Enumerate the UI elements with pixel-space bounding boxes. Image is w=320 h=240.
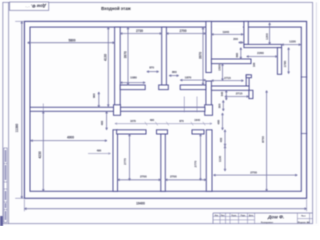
wall B (room2/room3 divider) [162,27,167,85]
dim 165 [252,62,256,67]
wall G (bath horizontal) [244,44,282,47]
wall H (hall/wc top wall) [211,59,251,64]
svg-text:11380: 11380 [15,123,19,132]
svg-text:Подп.: Подп. [241,215,246,217]
dim 1870 room3 [180,76,206,81]
dim 340 [220,90,227,100]
entrance opening in top wall [212,26,243,28]
svg-text:490: 490 [150,118,155,122]
svg-text:1220: 1220 [289,40,296,44]
svg-text:19400: 19400 [136,202,145,206]
svg-text:1670: 1670 [130,119,136,123]
wall D lower [206,130,212,192]
dim 2715 hall [211,76,243,82]
door jamb lines corridor [184,97,197,113]
wall I vertical [246,75,249,86]
svg-text:2730: 2730 [136,29,143,33]
wall C (lower rooms divider) [161,134,166,191]
dim chain lower rooms [115,118,212,125]
lower rooms top wall P1 [117,130,146,134]
corridor lower wall seg2 [121,107,205,111]
svg-text:870: 870 [149,66,154,70]
svg-text:960: 960 [92,93,96,98]
dim 2730 room2 [120,29,162,34]
svg-text:490: 490 [217,119,221,124]
dim 960 [92,92,100,107]
wall C head [157,130,168,134]
window mark right wall 2 [301,133,307,135]
wall A upper (between room1 and room2) [115,27,121,107]
corridor upper wall seg4 [211,86,249,90]
dim 870 door room2 [147,66,159,73]
svg-text:2715: 2715 [236,92,243,96]
stamp text (rotated designation) [26,3,47,8]
svg-text:Дом Ф.: Дом Ф. [31,3,47,8]
wall D middle [206,81,212,111]
dim 1500 [217,64,223,81]
overall width dim 19400 [24,200,306,212]
svg-text:2715: 2715 [224,76,231,80]
svg-text:Формат А4: Формат А4 [298,221,311,224]
title block name [267,214,284,220]
top-left stamp box [10,2,49,10]
dim 4900 lower-left room [31,135,107,141]
svg-text:N док.: N док. [231,215,237,217]
svg-text:2750: 2750 [250,170,257,174]
dim 4130 room1 [104,27,110,107]
wall A lower [113,130,118,192]
attribute strip (left margin tables) [4,148,7,222]
wall D upper (hall left wall) [206,21,212,72]
left frame line [8,2,10,223]
dim 860 bath [235,48,242,59]
svg-text:2770: 2770 [194,160,198,167]
svg-text:- . -: - . - [26,5,30,8]
svg-text:1300: 1300 [265,33,269,40]
wall A junction box [114,105,121,116]
title block small texts [261,221,310,224]
dim 2700 room3 [166,29,206,34]
dim 2770 lower-mid-right room [194,134,202,181]
dim 2770 lower-left-mid room [123,134,130,181]
svg-text:1870: 1870 [185,76,192,80]
wall E (bath top) [244,21,248,44]
dim 1130 [218,146,226,171]
svg-text:2260: 2260 [257,51,264,55]
svg-text:3970: 3970 [123,51,127,58]
overall height dim 11380 [15,21,24,198]
svg-text:165: 165 [252,62,256,67]
corridor upper wall seg1 [120,85,145,90]
svg-text:Лист: Лист [301,216,306,218]
wall I stub [246,75,251,78]
dim 4230 [38,104,44,192]
wall stub below corridor wall [249,90,253,98]
svg-text:4130: 4130 [104,54,108,61]
dim 2700 lower room R [165,175,206,181]
svg-text:860: 860 [172,70,177,74]
svg-text:5800: 5800 [68,39,75,43]
dim 1220 [282,40,301,46]
svg-text:2700: 2700 [170,175,177,179]
svg-text:Дата: Дата [249,215,253,217]
svg-text:860: 860 [235,52,239,57]
corridor upper wall seg3 [180,85,206,90]
svg-text:450: 450 [219,137,223,142]
title block [213,213,313,224]
svg-text:460: 460 [100,120,104,125]
dim 3970 room2 [123,27,129,85]
svg-text:2770: 2770 [123,158,127,165]
window mark right wall 1 [301,76,307,78]
scan mark bottom-left [0,216,3,226]
svg-text:Входной этаж: Входной этаж [101,6,131,11]
lower rooms top wall P3 [192,130,204,134]
svg-text:1080: 1080 [130,76,137,80]
dim 1080 room2 [120,76,145,84]
outer sheet edge right [315,2,317,223]
svg-text:4900: 4900 [67,135,74,139]
dim 1940 entrance [211,30,243,35]
svg-text:Копировал: Копировал [261,222,274,224]
dim 200 [233,37,243,43]
dim 1780 [283,48,289,74]
svg-text:3970: 3970 [198,52,202,59]
dim 460 [100,111,107,130]
dim 300 [217,100,224,111]
dim 3970 room3 [198,27,204,85]
wall B foot [159,85,169,90]
svg-text:200: 200 [233,37,238,41]
svg-text:1130: 1130 [218,155,222,162]
svg-text:1940: 1940 [222,30,229,34]
svg-text:300: 300 [217,103,221,108]
svg-text:490: 490 [97,149,102,153]
dim 450 [219,130,226,146]
dim 2260 [247,51,278,57]
svg-text:1500: 1500 [217,64,221,71]
outer wall outside edge [24,21,306,198]
svg-text:870: 870 [179,119,184,123]
svg-text:Дом Ф.: Дом Ф. [267,214,284,220]
svg-text:2700: 2700 [179,29,186,33]
svg-text:4230: 4230 [38,151,42,158]
svg-text:1640: 1640 [194,118,200,122]
svg-text:1780: 1780 [283,60,287,67]
wall D junction box [205,105,213,116]
sheet title text [101,6,131,11]
dim 2715 top corridor [225,92,249,98]
dim 2700 lower room L [118,175,161,181]
dim 2750 big room [213,170,297,176]
wall F (bath right vertical) [277,48,281,75]
dim 8750 big room [261,91,268,192]
corridor lower wall seg1 [30,107,114,111]
outer wall inside edge [30,27,301,191]
dim 5800 room1 [28,39,115,44]
svg-text:2700: 2700 [140,175,147,179]
svg-text:8750: 8750 [261,136,265,143]
dim 490 hall [217,113,224,130]
svg-text:Лист: Лист [221,215,225,217]
dim 490 door [88,149,111,155]
svg-text:340: 340 [220,91,224,96]
dim 860 door room3 [169,70,179,77]
dim 1300 [265,23,271,45]
